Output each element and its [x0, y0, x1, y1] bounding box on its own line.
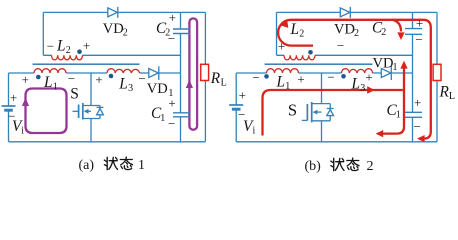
arrow down into C2 (b) — [397, 32, 404, 40]
svg-text:VD: VD — [334, 22, 355, 38]
magnetic core bar (b) — [265, 63, 373, 65]
wire: L3 to VD1 (a) — [140, 72, 149, 74]
inductor L3 coil (a) — [107, 69, 140, 73]
arrow on loop 2 (a) — [186, 80, 193, 88]
svg-text:S: S — [288, 101, 297, 120]
svg-text:+: + — [169, 10, 176, 25]
svg-text:−: − — [138, 71, 145, 86]
svg-text:L: L — [43, 74, 53, 91]
caption hanzi tai (b) — [347, 158, 359, 171]
wire: between L1 and L3 (a) — [66, 72, 107, 74]
svg-text:2: 2 — [381, 27, 386, 38]
svg-text:L: L — [276, 74, 286, 91]
wire: VD1 to C branch (b) — [391, 72, 413, 74]
inductor L1 coil (b) — [267, 69, 299, 73]
battery Vi (a) — [2, 106, 16, 110]
svg-text:+: + — [168, 96, 175, 111]
wire: bottom rail (a) — [9, 141, 206, 143]
svg-text:L: L — [290, 21, 300, 38]
magnetic core bar (a) — [33, 63, 140, 65]
svg-text:VD: VD — [373, 56, 394, 72]
arrow at bottom right return (b) — [417, 135, 425, 142]
capacitor C2 (b) — [405, 29, 422, 35]
diode VD1 (a) — [149, 66, 159, 80]
svg-text:+: + — [365, 70, 372, 85]
svg-text:1: 1 — [393, 62, 398, 73]
svg-text:L: L — [449, 91, 455, 102]
svg-text:i: i — [21, 126, 24, 137]
svg-text:L: L — [221, 77, 227, 88]
wire: L1/L3 line left (b) — [236, 72, 266, 74]
svg-text:2: 2 — [66, 45, 71, 56]
wire: L2 line segments (b) — [277, 54, 413, 56]
transistor S: MOSFET with body diode (b) — [302, 102, 334, 122]
diode VD1 (b) — [381, 66, 391, 80]
current path: top loop through L2, VD2, RL (b), red — [278, 20, 431, 139]
resistor RL rect (b) — [433, 64, 441, 80]
diode VD2 (a) — [108, 7, 118, 18]
polarity dot L1 (b) — [264, 74, 269, 79]
svg-text:−: − — [327, 70, 334, 85]
wire: switch source connection (a) — [90, 119, 92, 142]
wire: switch source connection (b) — [321, 121, 323, 142]
svg-text:L: L — [56, 37, 66, 54]
polarity dot L3 (a) — [109, 74, 114, 79]
svg-text:+: + — [414, 95, 421, 110]
inductor L3 coil (b) — [342, 69, 373, 73]
svg-text:1: 1 — [396, 110, 401, 121]
wire: bottom rail (b) — [236, 141, 437, 143]
svg-text:+: + — [10, 90, 17, 105]
svg-text:−: − — [337, 38, 344, 53]
svg-text:1: 1 — [160, 113, 165, 124]
current branch arrow into C2 (b), red — [392, 20, 401, 32]
wire: L1/L3 line left (a) — [9, 72, 35, 74]
svg-text:(a): (a) — [79, 158, 95, 173]
wire: left rail below battery (b) — [235, 109, 237, 142]
svg-text:+: + — [83, 38, 90, 53]
svg-text:R: R — [439, 84, 450, 101]
wire: top rail (a) — [43, 11, 205, 13]
svg-text:i: i — [253, 126, 256, 137]
diode VD2 (b) — [340, 7, 350, 18]
svg-text:2: 2 — [123, 28, 128, 39]
svg-text:1: 1 — [138, 158, 145, 173]
wire: switch drain connection (a) — [90, 73, 92, 106]
wire: left rail above battery (b) — [235, 73, 237, 105]
wire: L2 left drop (a) — [42, 12, 44, 55]
wire: L3 to VD1 (b) — [373, 72, 382, 74]
transistor S: MOSFET with body diode (a) — [73, 103, 104, 120]
inductor L2 coil (a) — [52, 55, 83, 60]
polarity dot L2 (a) — [77, 49, 82, 54]
wire: right rail with RL (b) — [436, 12, 438, 141]
svg-text:+: + — [22, 72, 29, 87]
svg-text:S: S — [70, 85, 79, 102]
svg-text:+: + — [95, 72, 102, 87]
svg-text:1: 1 — [285, 81, 290, 92]
svg-text:3: 3 — [360, 83, 365, 94]
inductor L1 coil (a) — [34, 69, 66, 73]
svg-text:VD: VD — [147, 81, 168, 97]
current path: input branch through L1 (b), red — [263, 90, 403, 136]
wire: C branch vertical (a) — [180, 12, 182, 141]
inductor L2 coil (b) — [284, 55, 315, 60]
capacitor C2 (a) — [173, 29, 190, 34]
svg-text:+: + — [297, 72, 304, 87]
arrow left into C1 mesh (b) — [376, 130, 384, 137]
svg-text:2: 2 — [367, 159, 374, 174]
svg-text:3: 3 — [128, 83, 133, 94]
wire: right rail with RL (a) — [204, 12, 206, 141]
svg-text:1: 1 — [53, 81, 58, 92]
resistor RL rect (a) — [201, 64, 209, 80]
svg-text:+: + — [278, 39, 285, 54]
wire: VD1 to C branch (a) — [158, 72, 181, 74]
arrow on loop 1 (a) — [22, 98, 29, 106]
current path: VD1 up branch and C1 return (b), red — [378, 64, 405, 134]
wire: left rail below battery (a) — [8, 110, 10, 142]
wire: C branch vertical (b) — [412, 12, 414, 141]
svg-text:−: − — [413, 119, 420, 134]
arrow on input path (b) — [367, 86, 375, 93]
polarity dot L1 (a) — [36, 75, 41, 80]
wire: left rail above battery (a) — [8, 73, 10, 106]
svg-text:VD: VD — [103, 21, 124, 37]
svg-text:L: L — [118, 75, 128, 92]
wire: top rail (b) — [277, 11, 438, 13]
svg-text:−: − — [47, 39, 54, 54]
capacitor C1 (a) — [173, 113, 190, 117]
current loop 1 (a) input mesh, purple — [26, 89, 67, 134]
arrow on top loop left cap (b) — [280, 21, 288, 28]
wire: switch drain connection (b) — [321, 73, 323, 104]
svg-text:(b): (b) — [305, 159, 322, 174]
svg-text:−: − — [68, 71, 75, 86]
svg-text:2: 2 — [354, 28, 359, 39]
svg-text:R: R — [210, 70, 221, 87]
caption hanzi zhuang (b) — [331, 158, 344, 170]
wire: between L1 and L3 (b) — [299, 72, 342, 74]
svg-text:+: + — [239, 87, 246, 102]
svg-text:L: L — [351, 75, 361, 92]
wire: L2 line segments (a) — [43, 54, 180, 56]
caption hanzi zhuang (a) — [104, 157, 117, 169]
svg-text:−: − — [168, 116, 175, 131]
caption hanzi tai (a) — [120, 157, 132, 170]
battery Vi (b) — [229, 105, 243, 109]
arrow up at VD1 (b) — [400, 61, 407, 69]
polarity dot L3 (b) — [341, 74, 346, 79]
wire: L2 left drop (b) — [276, 12, 278, 55]
polarity dot L2 (b) — [308, 50, 313, 55]
current loop 2 (a) output mesh, purple — [189, 18, 197, 129]
svg-text:−: − — [252, 70, 259, 85]
capacitor C1 (b) — [405, 112, 422, 117]
svg-text:2: 2 — [299, 29, 304, 40]
